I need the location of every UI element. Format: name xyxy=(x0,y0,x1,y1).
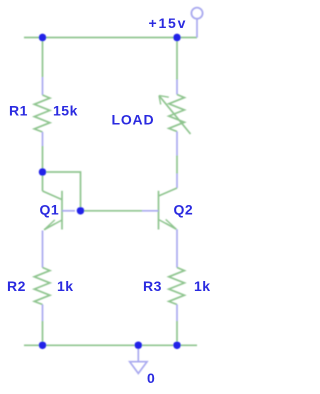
node B junction dot at bases xyxy=(77,207,84,214)
wire R2 bottom xyxy=(42,321,44,345)
wire top rail xyxy=(24,37,197,39)
svg-text:0: 0 xyxy=(147,370,155,386)
ground xyxy=(130,345,147,373)
node A junction dot below R1 xyxy=(39,168,46,175)
junction dot overdraw node A xyxy=(39,168,46,175)
svg-text:Q2: Q2 xyxy=(174,202,194,218)
junction dot bottom R3 branch xyxy=(173,342,180,349)
wire R1 bottom xyxy=(42,146,44,172)
svg-text:Q1: Q1 xyxy=(40,202,60,218)
junction dot overdraw bottom R2 xyxy=(39,342,46,349)
resistor R3 xyxy=(169,268,185,322)
svg-text:1k: 1k xyxy=(194,278,211,294)
svg-text:1k: 1k xyxy=(57,278,74,294)
junction dot overdraw node B xyxy=(77,207,84,214)
resistor R1 xyxy=(34,77,50,146)
junction dot overdraw top rail R1 xyxy=(39,34,46,41)
wire Q1 collector drop xyxy=(42,174,44,191)
wire R3 bottom xyxy=(176,321,178,345)
wire LOAD top xyxy=(176,39,178,80)
svg-text:+15v: +15v xyxy=(149,15,188,31)
junction dot bottom ground tap xyxy=(135,342,142,349)
terminal +15v xyxy=(191,8,202,38)
wire bottom rail xyxy=(24,344,197,346)
svg-text:R3: R3 xyxy=(143,278,162,294)
svg-text:R2: R2 xyxy=(7,278,26,294)
svg-text:R1: R1 xyxy=(9,103,28,119)
load variable resistor xyxy=(159,80,191,156)
svg-text:LOAD: LOAD xyxy=(112,112,155,128)
junction dot overdraw top rail LOAD xyxy=(173,34,180,41)
wire collector-base tie xyxy=(43,172,81,211)
resistor R2 xyxy=(34,268,50,322)
junction dot overdraw ground tap xyxy=(135,342,142,349)
transistor Q2 xyxy=(142,174,177,268)
wire LOAD bottom to Q2 xyxy=(176,156,178,174)
junction dot top rail LOAD branch xyxy=(173,34,180,41)
wire R1 top xyxy=(42,39,44,77)
svg-text:15k: 15k xyxy=(53,103,78,119)
wire bases xyxy=(81,210,143,212)
junction dot top rail R1 branch xyxy=(39,34,46,41)
junction dot overdraw bottom R3 xyxy=(173,342,180,349)
junction dot bottom R2 branch xyxy=(39,342,46,349)
transistor Q1 xyxy=(43,191,76,268)
